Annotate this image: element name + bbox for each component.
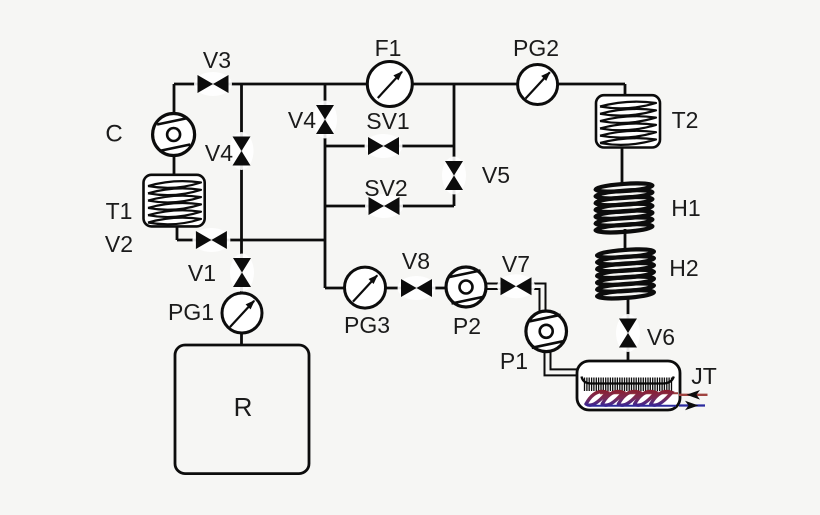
svg-text:V2: V2 xyxy=(105,231,133,257)
svg-text:H2: H2 xyxy=(669,255,698,281)
wire PG3 line xyxy=(325,287,446,290)
JT outlet arrow xyxy=(685,401,699,411)
valve V3 halo xyxy=(194,72,232,96)
valve V7 xyxy=(501,277,532,295)
valve V4 left halo xyxy=(230,132,254,170)
valve SV1 xyxy=(368,137,399,155)
coil H1 xyxy=(595,182,652,234)
pipe P2 to V7 (double line) xyxy=(486,284,501,290)
svg-text:C: C xyxy=(105,121,122,148)
svg-text:V8: V8 xyxy=(402,248,430,274)
wire H2 to JT via V6 xyxy=(627,296,630,361)
svg-text:JT: JT xyxy=(691,363,717,389)
wire SV2 line xyxy=(325,205,454,208)
valve V1 xyxy=(233,258,251,287)
wire riser C to main xyxy=(173,84,176,176)
JT colored coil xyxy=(586,392,672,406)
svg-text:V3: V3 xyxy=(203,47,231,73)
valve V5 halo xyxy=(442,157,466,195)
svg-text:PG1: PG1 xyxy=(168,299,214,325)
valve V4 left xyxy=(233,137,251,166)
valve V6 xyxy=(619,319,637,348)
pump P2 xyxy=(446,267,486,307)
valve V5 xyxy=(445,161,463,190)
wire H1 to H2 xyxy=(624,229,627,252)
valve V8 halo xyxy=(398,276,436,300)
valve SV2 xyxy=(369,197,400,215)
wire T2 to H1 xyxy=(621,146,624,185)
coil H2 xyxy=(597,248,654,300)
wire vertical x454 xyxy=(453,84,456,206)
svg-text:SV1: SV1 xyxy=(366,108,409,134)
wire vertical V4 branch x325 xyxy=(324,84,327,288)
pump P1 xyxy=(526,311,567,352)
svg-text:F1: F1 xyxy=(375,35,402,61)
svg-text:V5: V5 xyxy=(482,162,510,188)
JT tray line xyxy=(582,377,674,384)
JT inlet line red xyxy=(679,394,708,396)
gauge F1 xyxy=(367,62,412,107)
valve V4 mid halo xyxy=(313,101,337,139)
svg-text:PG3: PG3 xyxy=(344,312,390,338)
svg-text:V4: V4 xyxy=(288,107,316,133)
pump C xyxy=(153,114,195,156)
wire vertical V3 branch x241 xyxy=(240,84,243,345)
heat exchanger T1 xyxy=(144,175,205,227)
wire main top line xyxy=(174,83,625,86)
svg-text:P2: P2 xyxy=(453,313,481,339)
svg-text:T2: T2 xyxy=(672,107,699,133)
svg-text:V4: V4 xyxy=(205,140,233,166)
gauge PG2 xyxy=(518,65,558,105)
gauge PG1 xyxy=(222,293,262,333)
JT outlet line blue xyxy=(679,404,705,406)
svg-text:V7: V7 xyxy=(502,251,530,277)
svg-text:V1: V1 xyxy=(188,260,216,286)
wire main elbow down to T2 xyxy=(624,84,627,96)
valve V2 xyxy=(196,231,227,249)
svg-text:T1: T1 xyxy=(106,198,133,224)
valve V3 xyxy=(198,75,229,93)
valve V6 halo xyxy=(616,314,640,352)
reservoir R xyxy=(175,345,309,474)
valve V7 halo xyxy=(497,274,535,298)
valve V8 xyxy=(401,279,432,297)
svg-text:SV2: SV2 xyxy=(364,175,407,201)
pipe P1 to JT vessel (double line elbow) xyxy=(545,351,579,375)
wire SV1 line xyxy=(325,145,454,148)
JT inlet arrow xyxy=(687,390,701,400)
valve SV1 halo xyxy=(365,134,403,158)
JT internal red inlet line xyxy=(600,392,678,394)
svg-text:V6: V6 xyxy=(647,324,675,350)
pipe V7 to P1 (double line elbow) xyxy=(531,284,546,312)
wire T1 outlet / V2 line xyxy=(177,226,325,240)
valve SV2 halo xyxy=(365,194,403,218)
svg-text:H1: H1 xyxy=(671,195,700,221)
valve V1 halo xyxy=(230,254,254,292)
JT evaporator vessel xyxy=(577,361,680,410)
svg-text:P1: P1 xyxy=(500,348,528,374)
valve V2 halo xyxy=(192,228,230,252)
valve V4 mid xyxy=(316,105,334,134)
svg-text:R: R xyxy=(234,392,253,422)
gauge PG3 xyxy=(345,267,386,308)
JT internal blue outlet line xyxy=(590,405,676,407)
JT comb teeth xyxy=(585,378,672,392)
heat exchanger T2 xyxy=(596,95,660,147)
svg-text:PG2: PG2 xyxy=(513,35,559,61)
